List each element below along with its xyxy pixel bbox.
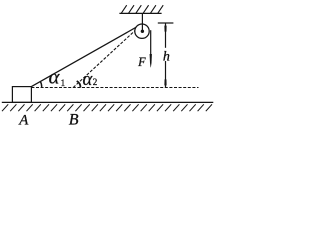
pulley circle: [135, 24, 149, 38]
svg-text:1: 1: [61, 78, 66, 88]
angle arc alpha2: [77, 81, 81, 88]
svg-text:α: α: [49, 66, 61, 88]
rope from B to pulley (dashed): [73, 31, 135, 88]
h down arrowhead: [164, 79, 166, 87]
h dimension line lower segment: [165, 61, 167, 87]
svg-text:A: A: [18, 113, 29, 129]
F force arrowhead: [150, 54, 152, 67]
angle arc alpha1: [40, 81, 42, 87]
pulley axle dot: [141, 30, 144, 33]
ceiling: [119, 12, 161, 14]
ground hatching: [2, 104, 212, 111]
svg-text:h: h: [163, 49, 170, 64]
pulley support wire: [141, 14, 143, 31]
h dimension line upper segment: [165, 24, 167, 48]
h up arrowhead: [164, 24, 166, 32]
ceiling hatching: [121, 5, 163, 13]
ground line: [2, 101, 214, 103]
dashed horizontal reference line: [31, 87, 198, 89]
h dimension top bar: [158, 22, 174, 24]
svg-text:2: 2: [93, 77, 98, 87]
svg-text:F: F: [137, 55, 146, 69]
block at A: [12, 87, 31, 103]
rope from A to pulley: [31, 27, 136, 86]
rope hanging from pulley: [150, 30, 152, 56]
svg-text:B: B: [69, 112, 79, 129]
